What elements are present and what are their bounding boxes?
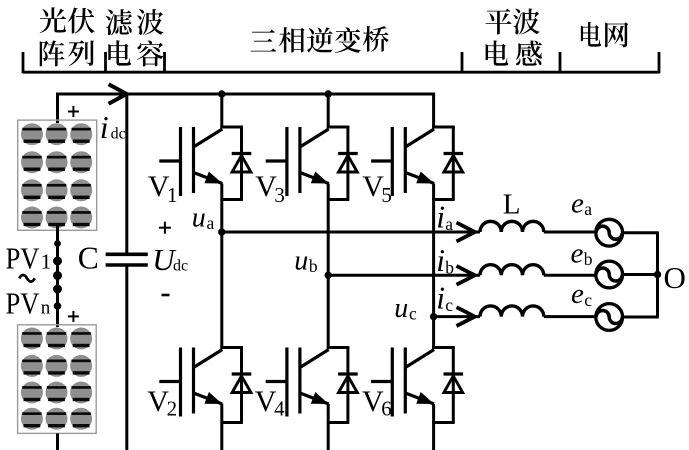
svg-text:n: n bbox=[41, 297, 51, 318]
label ~ (ellipsis between PV1 PVn) bbox=[19, 275, 35, 282]
AC source e_a circle bbox=[596, 219, 623, 246]
wire: V3 emitter down to node u_b bbox=[327, 184, 330, 276]
label u_c bbox=[394, 293, 417, 324]
label L bbox=[503, 188, 521, 220]
IGBT V4 body bar bbox=[298, 348, 301, 414]
svg-text:a: a bbox=[584, 199, 592, 219]
svg-text:u: u bbox=[394, 293, 408, 324]
svg-text:6: 6 bbox=[381, 397, 392, 421]
IGBT V1 gate bar bbox=[179, 127, 182, 196]
PV module block 2 bbox=[18, 325, 97, 434]
wire: diode bottom horiz leg b top bbox=[327, 198, 349, 201]
IGBT V1 gate lead bbox=[159, 159, 180, 162]
IGBT V2 emitter arrowhead bbox=[204, 392, 222, 404]
wire: phase a output line bbox=[222, 231, 480, 234]
wire: node u_a down to V2 bbox=[220, 232, 223, 348]
IGBT V2 collector stroke bbox=[194, 350, 223, 368]
IGBT V6 gate bar bbox=[391, 348, 394, 417]
inductor L phase a bbox=[480, 221, 544, 232]
diode (antiparallel of V6) triangle bbox=[444, 376, 463, 393]
IGBT V2 gate lead bbox=[159, 380, 180, 383]
IGBT V6 collector stroke bbox=[405, 350, 434, 368]
wire: corner horiz leg b top bbox=[327, 126, 350, 129]
label + (Udc) bbox=[159, 222, 171, 234]
svg-text:dc: dc bbox=[111, 125, 126, 142]
arrow i_b bbox=[457, 266, 475, 285]
IGBT V2 gate bar bbox=[179, 348, 182, 417]
bracket tick 6 bbox=[658, 52, 661, 73]
diode (antiparallel of V1) cathode bar bbox=[232, 152, 252, 155]
diode (antiparallel of V1) triangle bbox=[232, 156, 251, 173]
IGBT V3 emitter arrowhead bbox=[311, 172, 329, 184]
svg-text:c: c bbox=[584, 290, 592, 310]
svg-text:c: c bbox=[445, 295, 453, 315]
wire: diode branch leg b top bbox=[346, 127, 349, 200]
IGBT V4 emitter stroke bbox=[300, 393, 329, 404]
IGBT V2 emitter stroke bbox=[194, 393, 223, 404]
wire: V1 emitter down to node u_a bbox=[220, 184, 223, 233]
wire: source e_c to neutral bus bbox=[623, 316, 659, 319]
IGBT V3 emitter stroke bbox=[300, 173, 329, 184]
PV module block 1 bbox=[18, 120, 97, 230]
IGBT V3 gate lead bbox=[266, 159, 287, 162]
arrow i_a bbox=[457, 223, 475, 242]
svg-text:L: L bbox=[503, 188, 521, 220]
svg-text:b: b bbox=[584, 249, 593, 269]
svg-text:1: 1 bbox=[167, 183, 178, 207]
svg-text:i: i bbox=[100, 109, 109, 145]
label C bbox=[78, 241, 99, 276]
IGBT V5 gate bar bbox=[391, 127, 394, 196]
bracket tick 5 bbox=[559, 52, 562, 73]
label O bbox=[664, 260, 686, 295]
wire: V5 emitter down to node u_c bbox=[432, 184, 435, 317]
wire: corner horiz leg a bottom bbox=[220, 346, 243, 349]
label V4 bbox=[255, 385, 285, 421]
wire: phase c output line bbox=[434, 315, 480, 318]
diode (antiparallel of V3) triangle bbox=[339, 156, 358, 173]
node: bus junction leg a bbox=[218, 90, 225, 97]
label V5 bbox=[362, 170, 392, 207]
label + (block2) bbox=[68, 311, 79, 322]
wire: corner horiz leg b bottom bbox=[327, 346, 350, 349]
AC source e_a sine bbox=[596, 226, 622, 239]
IGBT V6 emitter arrowhead bbox=[416, 392, 434, 404]
wire: PV array drop bbox=[56, 93, 59, 124]
wire: inductor to source e_b bbox=[544, 274, 596, 277]
IGBT V5 emitter arrowhead bbox=[416, 172, 434, 184]
IGBT V4 gate lead bbox=[266, 380, 287, 383]
label: PV array (光伏阵列) bbox=[40, 7, 95, 66]
bracket tick 1 bbox=[22, 52, 25, 73]
wire: source e_b to neutral bus bbox=[623, 273, 659, 276]
IGBT V6 gate lead bbox=[371, 380, 392, 383]
wire: diode bottom horiz leg c top bbox=[432, 198, 454, 201]
svg-text:C: C bbox=[78, 241, 99, 276]
svg-text:3: 3 bbox=[274, 183, 285, 207]
label - (Udc) bbox=[162, 294, 170, 297]
wire: node u_b down to V4 bbox=[327, 275, 330, 347]
svg-text:a: a bbox=[445, 214, 453, 234]
wire: V2 emitter to bottom edge bbox=[220, 404, 223, 450]
IGBT V3 gate bar bbox=[285, 127, 288, 196]
wire: V4 emitter to bottom edge bbox=[327, 404, 330, 450]
label V2 bbox=[147, 385, 177, 421]
arrow i_dc on bus bbox=[109, 84, 127, 103]
wire: phase b output line bbox=[328, 274, 480, 277]
wire: corner horiz leg c bottom bbox=[432, 346, 455, 349]
wire: bus to V3 corner bbox=[327, 94, 330, 127]
IGBT V3 collector stroke bbox=[300, 129, 329, 147]
diode (antiparallel of V6) cathode bar bbox=[444, 372, 464, 375]
label + (block1) bbox=[68, 106, 79, 117]
wire: V6 emitter to bottom edge bbox=[432, 404, 435, 450]
svg-text:b: b bbox=[309, 256, 318, 276]
wire: diode bottom horiz leg c bottom bbox=[432, 421, 454, 424]
svg-text:i: i bbox=[436, 243, 445, 278]
AC source e_c sine bbox=[596, 310, 622, 323]
label i_b bbox=[436, 243, 454, 278]
label: three-phase inverter bridge (三相逆变桥) bbox=[251, 26, 389, 53]
svg-text:i: i bbox=[436, 280, 445, 315]
AC source e_c circle bbox=[596, 304, 623, 331]
node u_b junction bbox=[325, 272, 332, 279]
wire: capacitor bottom bbox=[125, 266, 128, 450]
svg-text:2: 2 bbox=[167, 397, 178, 421]
dotted series chain bbox=[53, 240, 62, 310]
label PVn bbox=[6, 285, 51, 320]
IGBT V5 body bar bbox=[404, 127, 407, 193]
svg-text:u: u bbox=[192, 203, 206, 234]
IGBT V3 body bar bbox=[298, 127, 301, 193]
label i_a bbox=[436, 199, 453, 234]
wire: inductor to source e_c bbox=[544, 315, 596, 318]
diode (antiparallel of V5) cathode bar bbox=[444, 152, 464, 155]
node: bus junction leg b bbox=[325, 90, 332, 97]
AC source e_b sine bbox=[596, 268, 622, 281]
wire: diode branch leg a top bbox=[240, 127, 243, 200]
label e_b bbox=[571, 238, 593, 270]
svg-text:1: 1 bbox=[41, 250, 52, 274]
diode (antiparallel of V4) triangle bbox=[339, 376, 358, 393]
wire: neutral bus vertical bbox=[656, 233, 659, 317]
diode (antiparallel of V2) triangle bbox=[232, 376, 251, 393]
label i_dc bbox=[100, 109, 126, 145]
wire: corner horiz leg a top bbox=[220, 126, 243, 129]
svg-text:e: e bbox=[571, 188, 584, 220]
svg-text:dc: dc bbox=[173, 257, 188, 274]
IGBT V1 emitter arrowhead bbox=[204, 172, 222, 184]
wire: source e_a to neutral bus bbox=[623, 231, 659, 234]
arrow i_c bbox=[457, 307, 475, 326]
IGBT V1 body bar bbox=[192, 127, 195, 193]
IGBT V5 collector stroke bbox=[405, 129, 434, 147]
bracket line bbox=[23, 71, 659, 74]
svg-text:5: 5 bbox=[381, 183, 392, 207]
diode (antiparallel of V5) triangle bbox=[444, 156, 463, 173]
label i_c bbox=[436, 280, 453, 315]
svg-text:u: u bbox=[294, 246, 308, 277]
node u_a junction bbox=[218, 228, 225, 235]
svg-text:a: a bbox=[207, 213, 215, 233]
svg-text:i: i bbox=[436, 199, 445, 234]
wire: node u_c down to V6 bbox=[432, 317, 435, 348]
wire: bus to V5 corner bbox=[432, 94, 435, 127]
wire: inductor to source e_a bbox=[544, 231, 596, 234]
wire: diode branch leg a bottom bbox=[240, 348, 243, 423]
wire: diode branch leg c top bbox=[452, 127, 455, 200]
inductor L phase c bbox=[480, 306, 544, 317]
wire: bus to V1 corner bbox=[220, 94, 223, 127]
node u_c junction bbox=[430, 313, 437, 320]
bracket tick 3 bbox=[163, 52, 166, 73]
IGBT V4 gate bar bbox=[285, 348, 288, 417]
wire: diode bottom horiz leg a top bbox=[220, 198, 242, 201]
wire: top DC bus bbox=[58, 93, 436, 96]
svg-text:e: e bbox=[571, 238, 584, 270]
svg-text:b: b bbox=[445, 257, 454, 277]
wire: block1 to block2 bbox=[56, 226, 59, 327]
wire: capacitor top bbox=[125, 94, 128, 254]
label V1 bbox=[148, 170, 178, 207]
svg-text:PV: PV bbox=[6, 285, 41, 320]
svg-text:c: c bbox=[409, 304, 417, 324]
label V3 bbox=[255, 170, 285, 207]
label e_c bbox=[571, 278, 592, 310]
label e_a bbox=[571, 188, 592, 220]
bracket tick 4 bbox=[461, 52, 464, 73]
label: filter capacitor (滤波电容) bbox=[106, 9, 164, 66]
wire: diode bottom horiz leg b bottom bbox=[327, 421, 349, 424]
svg-text:e: e bbox=[571, 278, 584, 310]
label: smoothing inductor (平波电感) bbox=[486, 9, 543, 66]
node O junction bbox=[654, 271, 661, 278]
IGBT V6 body bar bbox=[404, 348, 407, 414]
label PV1 bbox=[6, 241, 52, 276]
label Udc bbox=[152, 242, 188, 277]
IGBT V5 emitter stroke bbox=[405, 173, 434, 184]
AC source e_b circle bbox=[596, 261, 623, 288]
IGBT V1 emitter stroke bbox=[194, 173, 223, 184]
wire: corner horiz leg c top bbox=[432, 126, 455, 129]
diode (antiparallel of V4) cathode bar bbox=[338, 372, 358, 375]
IGBT V5 gate lead bbox=[371, 159, 392, 162]
label u_a bbox=[192, 203, 215, 234]
IGBT V4 emitter arrowhead bbox=[311, 392, 329, 404]
wire: block2 to bottom bbox=[56, 433, 59, 450]
diode (antiparallel of V3) cathode bar bbox=[338, 152, 358, 155]
IGBT V2 body bar bbox=[192, 348, 195, 414]
wire: diode bottom horiz leg a bottom bbox=[220, 421, 242, 424]
label u_b bbox=[294, 246, 318, 277]
diode (antiparallel of V2) cathode bar bbox=[232, 372, 252, 375]
label V6 bbox=[362, 385, 392, 421]
svg-text:O: O bbox=[664, 260, 686, 295]
wire: diode branch leg c bottom bbox=[452, 348, 455, 423]
label: grid (电网) bbox=[581, 22, 628, 48]
IGBT V1 collector stroke bbox=[194, 129, 223, 147]
IGBT V4 collector stroke bbox=[300, 350, 329, 368]
svg-text:PV: PV bbox=[6, 241, 41, 276]
bracket tick 2 bbox=[104, 52, 107, 73]
wire: diode branch leg b bottom bbox=[346, 348, 349, 423]
capacitor C plates bbox=[106, 254, 148, 265]
IGBT V6 emitter stroke bbox=[405, 393, 434, 404]
svg-text:4: 4 bbox=[274, 397, 285, 421]
inductor L phase b bbox=[480, 265, 544, 276]
